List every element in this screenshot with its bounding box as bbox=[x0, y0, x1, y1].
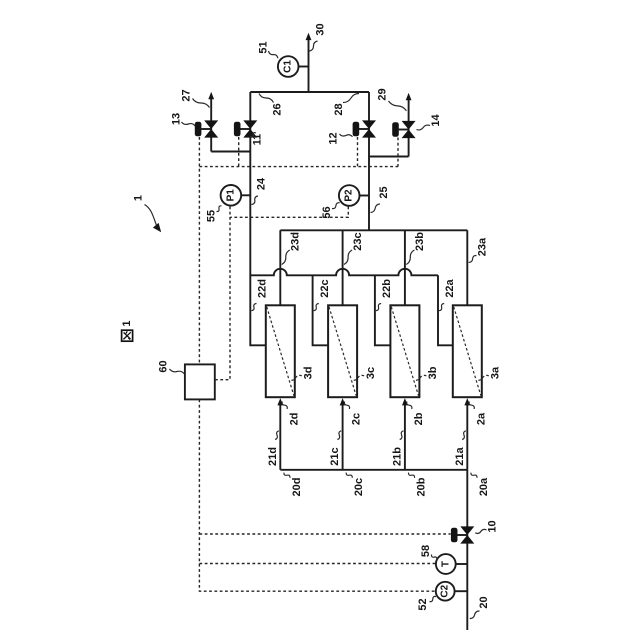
svg-text:C1: C1 bbox=[283, 60, 294, 73]
svg-text:22d: 22d bbox=[257, 279, 269, 298]
wire: permeate line 23d bbox=[279, 230, 281, 305]
membrane module 3b bbox=[390, 305, 419, 397]
wire: feed riser 21b/2b with arrow into module bbox=[402, 398, 408, 470]
svg-text:23b: 23b bbox=[414, 232, 426, 251]
label 23d bbox=[282, 232, 302, 264]
label 11 bbox=[251, 133, 264, 146]
membrane module 3d bbox=[266, 305, 295, 397]
label 26 bbox=[259, 94, 284, 116]
sensor P2 bbox=[339, 185, 360, 206]
svg-text:20c: 20c bbox=[353, 478, 365, 496]
label 3d bbox=[289, 367, 314, 381]
wire: permeate line 23b bbox=[404, 230, 406, 305]
svg-text:20a: 20a bbox=[478, 477, 490, 496]
control line: P1 to controller 60 bbox=[215, 206, 230, 379]
svg-text:22b: 22b bbox=[381, 279, 393, 298]
label 23c bbox=[344, 232, 364, 264]
wire: C1 connector bbox=[297, 66, 309, 68]
label 22b bbox=[376, 279, 393, 311]
valve 13 bbox=[195, 120, 218, 137]
svg-text:3a: 3a bbox=[490, 366, 502, 379]
control line: controller to valve 10 bbox=[199, 533, 450, 535]
svg-text:12: 12 bbox=[328, 132, 340, 144]
svg-text:3b: 3b bbox=[427, 366, 439, 379]
control line: valve 11 drop bbox=[238, 137, 240, 167]
label 13 bbox=[171, 113, 196, 126]
svg-text:56: 56 bbox=[321, 206, 333, 218]
wire: feed riser 21c/2c with arrow into module bbox=[340, 398, 346, 470]
label 55 bbox=[206, 206, 222, 222]
svg-text:22a: 22a bbox=[444, 278, 456, 297]
label 29 bbox=[377, 88, 407, 110]
label 52 bbox=[417, 596, 436, 610]
svg-text:23a: 23a bbox=[477, 237, 489, 256]
svg-text:27: 27 bbox=[181, 89, 193, 101]
wire: P1 connector bbox=[239, 194, 250, 196]
wire: feed header (20b-20d) bbox=[280, 469, 467, 471]
wire: permeate line 23c bbox=[342, 230, 344, 305]
svg-text:52: 52 bbox=[417, 598, 429, 610]
svg-text:29: 29 bbox=[377, 88, 389, 100]
svg-text:13: 13 bbox=[171, 113, 183, 125]
label 21a bbox=[454, 431, 466, 466]
label 22c bbox=[314, 279, 331, 310]
svg-text:T: T bbox=[440, 561, 451, 567]
control line: valve bus bbox=[199, 166, 398, 168]
svg-text:2a: 2a bbox=[475, 412, 487, 425]
wire: retentate header 22 with crossover bumps bbox=[250, 269, 438, 275]
svg-text:3c: 3c bbox=[365, 367, 377, 379]
label 12 bbox=[328, 132, 353, 144]
svg-text:3d: 3d bbox=[303, 367, 315, 380]
controller box 60 bbox=[185, 364, 215, 399]
wire: T sensor connector bbox=[454, 563, 468, 565]
svg-text:23c: 23c bbox=[352, 232, 364, 250]
label 10 bbox=[475, 520, 498, 533]
wire: outlet line 30 with arrow bbox=[306, 33, 312, 92]
control line: P2 to P1 drop bbox=[230, 207, 348, 218]
control line: valve 12 drop bbox=[357, 137, 359, 167]
sensor C1 (compressor) bbox=[278, 56, 299, 77]
wire: connector below valves 12 and 14 bbox=[369, 156, 409, 158]
label 3b bbox=[414, 366, 439, 380]
svg-text:20d: 20d bbox=[291, 478, 303, 497]
svg-text:22c: 22c bbox=[319, 279, 331, 297]
label 21d bbox=[267, 431, 279, 466]
svg-text:P1: P1 bbox=[225, 189, 236, 202]
svg-text:2c: 2c bbox=[351, 413, 363, 425]
wire: C2 sensor connector bbox=[454, 590, 468, 592]
wire: retentate drop 22b bbox=[375, 275, 391, 345]
svg-text:20: 20 bbox=[478, 596, 490, 608]
svg-text:51: 51 bbox=[258, 41, 270, 53]
wire: permeate header (23a-23d collect) bbox=[280, 229, 467, 231]
label 23a bbox=[469, 237, 489, 262]
svg-text:1: 1 bbox=[133, 195, 145, 201]
label 2c bbox=[344, 402, 362, 426]
sensor T (temperature) bbox=[436, 554, 456, 574]
label 20d bbox=[284, 473, 303, 497]
control line: valve 13 to controller 60 bbox=[198, 137, 200, 364]
label 14 bbox=[417, 114, 443, 130]
svg-text:23d: 23d bbox=[290, 232, 302, 251]
label 28 bbox=[333, 94, 359, 116]
svg-text:30: 30 bbox=[315, 23, 327, 35]
control line: controller to T bbox=[199, 563, 435, 565]
control line: valve 14 drop bbox=[397, 138, 399, 167]
label 27 bbox=[181, 89, 210, 107]
figure title 図1 bbox=[121, 321, 133, 342]
label 20c bbox=[346, 473, 365, 497]
label 21c bbox=[329, 431, 341, 466]
label 56 bbox=[321, 203, 340, 219]
label 58 bbox=[420, 545, 437, 560]
label 25 bbox=[371, 186, 391, 212]
valve 11 bbox=[234, 120, 257, 137]
label 20 bbox=[470, 596, 490, 618]
label 22d bbox=[251, 279, 268, 311]
label 2d bbox=[282, 402, 300, 426]
label 51 bbox=[258, 41, 278, 58]
wire: connector below valves 13 and 11 bbox=[211, 151, 250, 153]
svg-text:60: 60 bbox=[158, 360, 170, 372]
svg-text:28: 28 bbox=[333, 103, 345, 115]
svg-text:2b: 2b bbox=[413, 412, 425, 425]
valve 10 bbox=[451, 526, 474, 543]
wire: retentate drop 22a bbox=[438, 275, 453, 345]
label 23b bbox=[406, 232, 426, 265]
membrane module 3c bbox=[328, 305, 357, 397]
svg-text:C2: C2 bbox=[440, 584, 451, 597]
wire: P2 connector bbox=[358, 195, 370, 197]
wire: vent line 27 with arrow bbox=[208, 92, 214, 152]
svg-text:10: 10 bbox=[487, 520, 499, 532]
svg-text:26: 26 bbox=[272, 103, 284, 115]
svg-text:20b: 20b bbox=[416, 477, 428, 496]
wire: top manifold (26/28) bbox=[250, 91, 369, 93]
label 60 bbox=[158, 360, 185, 374]
svg-text:58: 58 bbox=[420, 545, 432, 557]
svg-text:25: 25 bbox=[378, 186, 390, 198]
sensor P1 bbox=[221, 185, 242, 206]
label 24 bbox=[252, 177, 268, 204]
svg-text:2d: 2d bbox=[288, 413, 300, 426]
wire: permeate line 23a bbox=[466, 230, 468, 305]
svg-text:24: 24 bbox=[256, 177, 268, 190]
membrane module 3a bbox=[453, 305, 482, 397]
control line: controller 60 down to C2 bbox=[199, 400, 435, 592]
svg-text:P2: P2 bbox=[344, 189, 355, 202]
svg-text:21a: 21a bbox=[454, 446, 466, 465]
wire: vent line 29 with arrow bbox=[406, 93, 412, 157]
wire: main feed line 20/20a bbox=[466, 470, 468, 630]
label 2b bbox=[407, 402, 425, 426]
label 2a bbox=[469, 402, 487, 426]
label 3c bbox=[352, 367, 377, 380]
label 22a bbox=[439, 278, 456, 310]
wire: feed riser 21d/2d with arrow into module bbox=[277, 398, 283, 470]
label 20a bbox=[471, 473, 490, 497]
label 30 bbox=[310, 23, 327, 51]
wire: retentate drop 22c bbox=[313, 275, 329, 345]
overall reference 1 with arrow bbox=[133, 195, 162, 232]
valve 12 bbox=[353, 120, 376, 137]
label 3a bbox=[476, 366, 501, 380]
svg-text:14: 14 bbox=[430, 114, 442, 127]
label 21b bbox=[391, 431, 403, 466]
svg-text:21c: 21c bbox=[329, 447, 341, 465]
wire: line 25 vertical (valve 12 column down to permeate header) bbox=[368, 92, 370, 230]
wire: line 24 vertical (valve 11 column down to module 3d inlet) bbox=[250, 92, 265, 345]
svg-text:21d: 21d bbox=[267, 447, 279, 466]
valve 14 bbox=[392, 121, 415, 138]
svg-text:1: 1 bbox=[121, 321, 133, 327]
svg-text:55: 55 bbox=[206, 210, 218, 222]
sensor C2 bbox=[436, 582, 455, 601]
label 20b bbox=[408, 473, 427, 497]
svg-text:21b: 21b bbox=[391, 447, 403, 466]
wire: feed riser 21a/2a with arrow into module bbox=[464, 398, 470, 470]
